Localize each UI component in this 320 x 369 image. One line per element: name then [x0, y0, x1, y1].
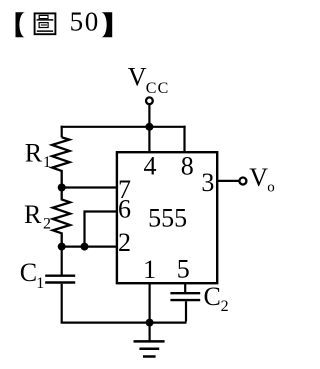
svg-text:8: 8: [181, 152, 194, 181]
svg-text:4: 4: [144, 152, 157, 181]
title bracket right: [101, 12, 112, 37]
resistor R2: [53, 188, 70, 247]
wire C1 to bottom rail: [61, 284, 63, 323]
svg-text:1: 1: [43, 154, 51, 171]
Vo terminal circle: [239, 178, 246, 185]
svg-text:555: 555: [148, 203, 187, 232]
svg-text:6: 6: [118, 195, 131, 224]
junction R1/R2 node: [58, 184, 66, 192]
wire pin 5 to C2: [184, 283, 186, 292]
svg-text:R: R: [25, 139, 43, 168]
junction VCC rail: [145, 123, 153, 131]
VCC terminal circle: [146, 97, 153, 104]
wire VCC drop to pin 4: [148, 104, 150, 152]
svg-text:o: o: [267, 180, 275, 196]
wire pin 2: [62, 246, 117, 248]
svg-text:2: 2: [118, 228, 131, 257]
IC U1 555 box: [117, 152, 217, 283]
junction R2 bottom / pin 2 node: [58, 243, 66, 251]
svg-text:CC: CC: [146, 80, 170, 97]
capacitor C1: [45, 275, 75, 277]
svg-text:3: 3: [201, 168, 214, 197]
svg-text:V: V: [128, 63, 147, 92]
svg-text:50: 50: [70, 7, 100, 37]
wire R2 node down to C1: [61, 247, 63, 275]
resistor R1: [52, 137, 69, 187]
title CJK glyph: [35, 13, 56, 34]
svg-text:1: 1: [36, 275, 44, 292]
svg-text:5: 5: [177, 254, 190, 283]
junction ground node: [146, 319, 154, 327]
svg-text:C: C: [20, 258, 37, 287]
svg-text:2: 2: [221, 298, 229, 315]
svg-text:R: R: [24, 200, 42, 229]
wire pin 6 bend: [85, 212, 118, 247]
wire pin 7: [62, 186, 117, 188]
junction pin6/pin2: [81, 243, 89, 251]
wire top horizontal rail: [61, 126, 186, 128]
ground: [134, 323, 165, 357]
svg-text:2: 2: [43, 216, 51, 233]
svg-text:V: V: [249, 163, 268, 192]
wire top rail to R1: [61, 126, 63, 138]
wire pin 1 to ground rail: [149, 283, 151, 322]
wire C2 to bottom rail: [185, 301, 187, 321]
capacitor C2: [170, 292, 200, 294]
svg-text:1: 1: [143, 255, 156, 284]
wire down to pin 8: [183, 126, 185, 153]
title bracket left: [16, 12, 26, 37]
svg-text:C: C: [204, 282, 221, 311]
wire pin 3 output: [217, 180, 239, 182]
wire bottom rail: [61, 322, 187, 324]
